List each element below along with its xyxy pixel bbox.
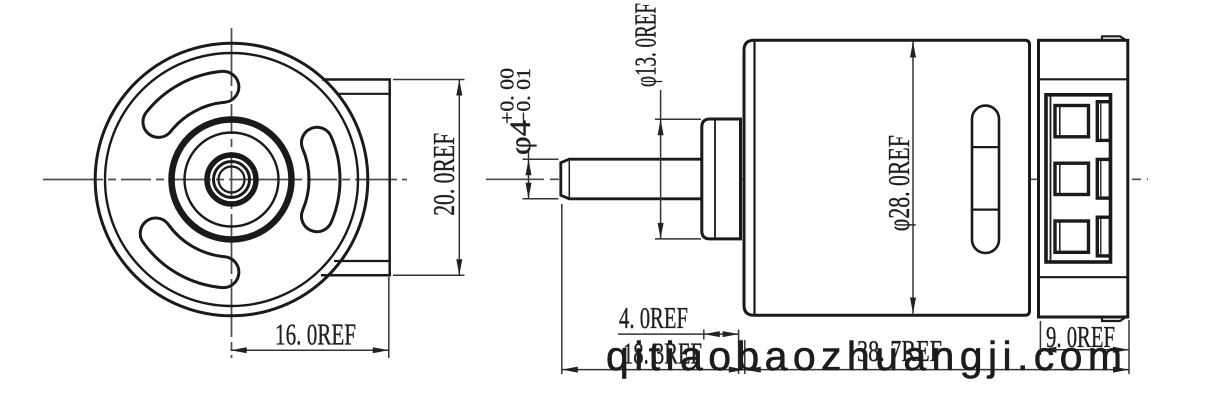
side view: end cap housing xyxy=(1039,40,1128,317)
chain dimension extension line at shaft tip xyxy=(561,204,563,374)
side view: end cap bottom-right tab xyxy=(1102,316,1128,322)
side view: terminal 2 (middle) inner left line xyxy=(1059,164,1061,193)
front view: horizontal centerline xyxy=(43,179,407,181)
dimension 4.0REF extension lines xyxy=(703,330,705,340)
front view: body rectangle inner top line xyxy=(336,93,390,95)
side view: end cap top-right tab xyxy=(1102,36,1128,42)
svg-text:φ28. 0REF: φ28. 0REF xyxy=(881,135,916,231)
dimension 20.0REF line with arrows xyxy=(458,80,460,276)
front view: outer circle (motor can front rim) xyxy=(95,43,368,316)
dimension phi28 line with arrows xyxy=(912,42,914,314)
front view: center boss thick circle (phi13 bearing boss) xyxy=(172,120,292,240)
side view: stadium slot inner line lower xyxy=(972,209,999,211)
dimension phi13 line with arrows xyxy=(660,90,662,239)
side view: shaft chamfer line xyxy=(568,160,570,198)
side view: motor body (phi28 can) xyxy=(744,40,1030,315)
side view: body front face rim line xyxy=(753,41,755,315)
front view: bearing circle xyxy=(207,155,256,204)
chain dimension extension line at body left xyxy=(744,340,746,374)
svg-text:38. 7REF: 38. 7REF xyxy=(857,333,942,368)
svg-text:φ4: φ4 xyxy=(504,120,537,155)
svg-text:16. 0REF: 16. 0REF xyxy=(275,317,356,352)
side view: end cap top shoulder line xyxy=(1039,78,1128,80)
side view: terminal 1 (top) clamp inner line xyxy=(1100,103,1102,140)
svg-text:20. 0REF: 20. 0REF xyxy=(426,133,461,216)
chain dimension extension line at cap right xyxy=(1128,320,1130,374)
front view: body rectangle inner bottom line xyxy=(334,260,390,262)
dimension phi4 +0.00/-0.01 text (rotated) xyxy=(497,68,538,155)
side view: terminal block left inner line xyxy=(1050,95,1052,262)
front view: shaft inner circle xyxy=(219,167,245,193)
dimension phi4 line with arrows xyxy=(528,148,530,199)
front view: vertical centerline (also 16.0REF left extension) xyxy=(231,28,233,358)
side view: terminal 1 (top) inner left line xyxy=(1059,107,1061,136)
dimension 20.0REF extension lines xyxy=(393,79,465,81)
side view: terminal 3 (bottom) square xyxy=(1055,221,1089,252)
dimension 18.3REF / 38.7REF line with arrows xyxy=(562,369,1129,371)
side view: terminal 1 (top) clamp xyxy=(1097,102,1110,141)
dimension 4.0REF line with arrows xyxy=(618,333,739,335)
svg-text:−0. 01: −0. 01 xyxy=(513,68,535,124)
side view: flange face seam line xyxy=(714,120,716,238)
side view: horizontal centerline xyxy=(486,178,1148,180)
side view: terminal 3 (bottom) inner left line xyxy=(1059,222,1061,251)
dimension 9.0REF line with arrows xyxy=(1040,349,1129,351)
side view: terminal 1 (top) square xyxy=(1055,106,1089,137)
dimension 9.0REF extension line left xyxy=(1039,321,1041,355)
dimension 16.0REF extension line right xyxy=(388,277,390,358)
dimension phi4 extension lines xyxy=(523,158,559,160)
front view: boss inner circle xyxy=(185,133,279,227)
side view: terminal 3 (bottom) clamp xyxy=(1097,217,1110,256)
side view: terminal 2 (middle) clamp xyxy=(1097,159,1110,198)
dimension 16.0REF line with arrows xyxy=(231,349,389,351)
side view: end cap bottom shoulder line xyxy=(1039,276,1128,278)
side view: stadium slot inner line upper xyxy=(972,146,999,148)
dimension phi13 extension lines xyxy=(655,118,701,120)
side view: terminal 2 (middle) square xyxy=(1055,163,1089,194)
front view: vent slot right xyxy=(301,127,340,231)
front view: vent slot upper-left xyxy=(143,71,239,137)
side view: terminal 3 (bottom) clamp inner line xyxy=(1100,218,1102,255)
svg-text:4. 0REF: 4. 0REF xyxy=(619,300,688,335)
front view: vent slot lower-left xyxy=(140,218,239,288)
front view: inner rim circle xyxy=(105,53,358,306)
svg-text:φ13. 0REF: φ13. 0REF xyxy=(628,3,663,87)
side view: bearing flange (phi13) rounded left corners xyxy=(702,119,741,239)
svg-text:qitiaobaozhuangji.com: qitiaobaozhuangji.com xyxy=(606,333,1122,379)
side view: shaft outline with chamfered tip xyxy=(561,159,702,199)
side view: body vent slot (stadium) xyxy=(972,106,999,253)
side view: terminal block outer xyxy=(1046,95,1111,262)
side view: terminal 2 (middle) clamp inner line xyxy=(1100,160,1102,197)
front view: body rectangle behind (seen past circle) xyxy=(321,80,390,276)
front view: shaft circle xyxy=(214,162,250,198)
